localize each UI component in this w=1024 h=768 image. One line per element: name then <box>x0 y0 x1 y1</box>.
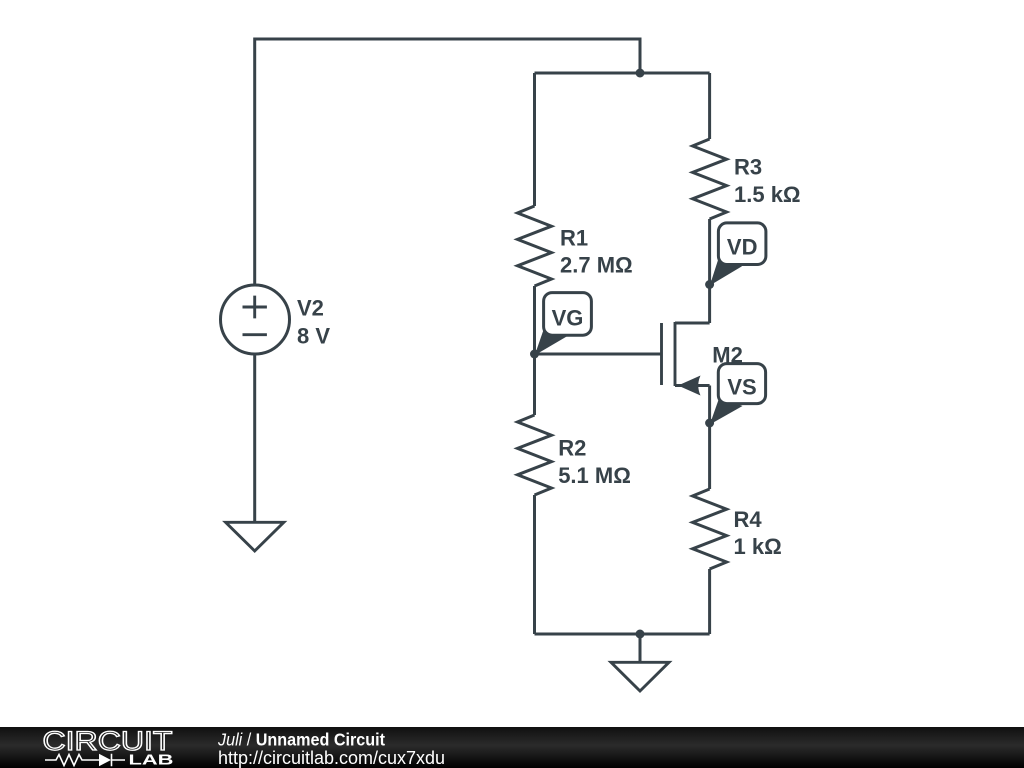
resistor R1 <box>518 206 552 286</box>
wire bottom rail <box>535 633 710 636</box>
svg-text:VG: VG <box>552 305 584 330</box>
footer bar <box>0 727 1024 768</box>
svg-text:http://circuitlab.com/cux7xdu: http://circuitlab.com/cux7xdu <box>218 748 445 768</box>
wire ground stem bottom <box>639 634 642 662</box>
wire right branch upper <box>708 73 711 139</box>
svg-text:V2: V2 <box>297 296 324 321</box>
resistor R3 <box>693 139 727 219</box>
logo resistor-diode squiggle <box>45 754 125 766</box>
svg-text:1.5 kΩ: 1.5 kΩ <box>734 182 801 207</box>
node VG <box>530 350 539 359</box>
svg-text:LAB: LAB <box>129 752 174 768</box>
wire left branch lower <box>533 495 536 634</box>
svg-text:R4: R4 <box>734 507 763 532</box>
svg-text:8 V: 8 V <box>297 324 330 349</box>
wire gate <box>535 353 662 356</box>
node bottom junction <box>636 630 645 639</box>
wire top rail <box>535 72 710 75</box>
wire V2 top to rail corner <box>255 39 640 285</box>
wire R3 to drain <box>708 219 711 323</box>
wire source to R4 <box>708 386 711 490</box>
svg-text:VD: VD <box>727 235 758 260</box>
node VS <box>705 419 714 428</box>
svg-text:Juli / Unnamed Circuit: Juli / Unnamed Circuit <box>217 729 385 749</box>
wire V2 to ground <box>253 354 256 522</box>
svg-text:R3: R3 <box>734 155 762 180</box>
wire R4 to bottom rail <box>708 569 711 634</box>
flag VS <box>710 364 766 425</box>
resistor R2 <box>518 415 552 495</box>
node VD <box>705 280 714 289</box>
ground bottom <box>611 662 669 691</box>
transistor M2 <box>662 322 710 396</box>
svg-text:VS: VS <box>727 375 756 400</box>
flag VD <box>710 223 766 286</box>
svg-text:2.7 MΩ: 2.7 MΩ <box>560 253 633 278</box>
voltage source V2 <box>221 285 290 354</box>
wire left branch upper <box>533 73 536 206</box>
ground left <box>226 522 284 551</box>
wire R1 bottom to VG node to R2 <box>533 286 536 415</box>
resistor R4 <box>693 489 727 569</box>
flag VG <box>535 293 592 356</box>
svg-text:1 kΩ: 1 kΩ <box>734 534 782 559</box>
svg-text:5.1 MΩ: 5.1 MΩ <box>558 463 631 488</box>
node top junction <box>636 69 645 78</box>
svg-text:R2: R2 <box>558 436 586 461</box>
svg-text:R1: R1 <box>560 225 588 250</box>
